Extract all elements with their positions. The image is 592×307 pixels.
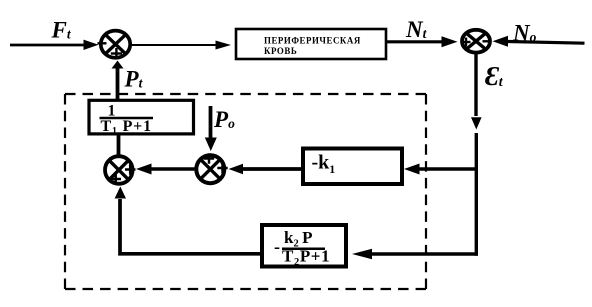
wire: Ft input arrow into summer S1 bbox=[10, 40, 99, 50]
wire: -k1 out to summer S4 bbox=[229, 164, 304, 175]
wire: k2 block out, left and up into S3 bbox=[115, 187, 262, 254]
svg-text:T1 P+1: T1 P+1 bbox=[101, 118, 152, 137]
wire: B1 to summer S2, label Nt bbox=[386, 36, 458, 47]
summing junction S2 bbox=[462, 30, 491, 53]
wire: right feedback into k2 block bbox=[352, 249, 478, 260]
wire: S1 to peripheral blood block bbox=[132, 41, 232, 50]
wire: branch to -k1 block bbox=[404, 164, 476, 175]
wire: S2 down (epsilon-t signal) with mid arrowhead bbox=[471, 53, 482, 256]
block B2: 1/(T1P+1) bbox=[89, 100, 194, 137]
svg-text:-: - bbox=[274, 237, 280, 257]
wire: B2 up into S1, label Pt bbox=[112, 61, 124, 101]
summing junction S3 bbox=[105, 156, 136, 184]
wire: No input arrow into S2 bbox=[493, 36, 585, 47]
svg-text:T2P+1: T2P+1 bbox=[282, 247, 330, 269]
block B3: -k2P/(T2P+1) bbox=[262, 225, 346, 268]
block -k1 bbox=[303, 149, 402, 185]
wire: Po input arrow down into S4 bbox=[205, 106, 217, 151]
summing junction S1 bbox=[98, 31, 131, 59]
summing junction S4 bbox=[196, 153, 227, 183]
block B1: peripheral blood bbox=[236, 29, 386, 59]
svg-text:КРОВЬ: КРОВЬ bbox=[264, 46, 297, 56]
svg-text:ПЕРИФЕРИЧЕСКАЯ: ПЕРИФЕРИЧЕСКАЯ bbox=[264, 36, 361, 46]
dashed enclosure box bbox=[65, 94, 426, 289]
wire: S4 out to summer S3 bbox=[136, 164, 196, 175]
wire: S3 up into block B2 bbox=[117, 134, 121, 156]
